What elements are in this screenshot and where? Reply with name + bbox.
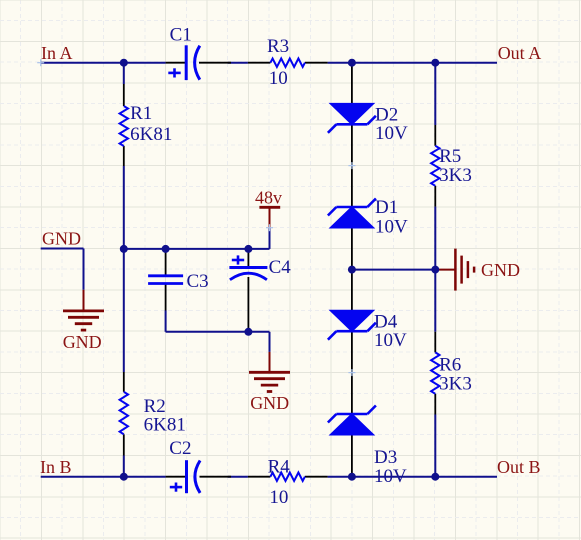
- wire rail to Out B: [435, 476, 497, 478]
- pin R5 top: [434, 125, 436, 146]
- wire R3 to node D2-top: [328, 62, 352, 64]
- svg-text:6K81: 6K81: [130, 124, 172, 145]
- pin R3 left: [248, 62, 271, 64]
- wire right rail mid node to R6: [434, 270, 436, 332]
- wire C1 to R3: [228, 62, 248, 64]
- pin-join marker D2/D1: [348, 162, 355, 169]
- wire-end marker In A: [37, 59, 44, 66]
- svg-text:6K81: 6K81: [144, 415, 186, 436]
- pin R2 top: [123, 372, 125, 392]
- capacitor C2 plus sign: [170, 486, 182, 489]
- resistor R3 body: [270, 59, 305, 67]
- junction mid GND: [431, 266, 439, 274]
- svg-text:10V: 10V: [375, 217, 408, 238]
- wire C4 bus to GND corner: [248, 331, 269, 333]
- ground symbol left stem: [83, 290, 85, 311]
- pin R4 right: [305, 476, 328, 478]
- wire C2 to R4: [228, 476, 248, 478]
- junction 48v row C4: [244, 245, 252, 253]
- pin R6 bottom: [434, 394, 436, 415]
- svg-text:10V: 10V: [374, 466, 407, 487]
- junction 48v row C3: [162, 245, 170, 253]
- resistor R2 body: [120, 392, 128, 435]
- capacitor C1 straight plate: [185, 45, 188, 80]
- zener diode D3: [330, 414, 373, 435]
- capacitor C4 plus sign: [232, 259, 244, 262]
- pin C1 right: [199, 62, 231, 64]
- ground symbol left bars: [63, 309, 104, 312]
- pin C3 bottom: [165, 284, 167, 311]
- wire node D2-top to node Out A rail: [352, 62, 435, 64]
- zener diode D2: [330, 104, 373, 125]
- ground symbol right bars: [454, 249, 457, 291]
- svg-text:R6: R6: [439, 355, 461, 376]
- svg-text:R3: R3: [267, 36, 289, 57]
- pin C1 left: [166, 62, 187, 64]
- pin-join marker D4/D3: [348, 369, 355, 376]
- resistor R6 body: [431, 352, 439, 393]
- junction bottom rail: [431, 473, 439, 481]
- junction top D2: [348, 59, 356, 67]
- pin C3 top: [165, 249, 167, 276]
- capacitor C2 straight plate: [185, 460, 188, 493]
- ground symbol mid bars: [249, 371, 290, 374]
- wire left rail R1 to 48v row: [123, 166, 125, 249]
- capacitor C4 straight plate: [229, 266, 267, 269]
- svg-text:D4: D4: [374, 311, 398, 332]
- wire mid row D1 to right rail: [352, 269, 435, 271]
- resistor R5 body: [431, 146, 439, 186]
- pin C4 top: [247, 249, 249, 268]
- svg-text:10V: 10V: [374, 330, 407, 351]
- pin R2 bottom: [123, 434, 125, 455]
- pin R1 bottom: [123, 146, 125, 166]
- capacitor C4 curved plate: [230, 273, 267, 280]
- pin D4 anode top: [351, 270, 353, 311]
- wire GND-mid vertical: [269, 332, 271, 352]
- capacitor C1 curved plate: [195, 46, 200, 80]
- wire rail to Out A: [435, 62, 497, 64]
- wire R4 to node D3-bottom: [328, 476, 352, 478]
- wire right rail top to R5: [434, 63, 436, 125]
- wire In A to node A: [41, 62, 124, 64]
- pin R1 top: [123, 84, 125, 106]
- wire node A to C1: [124, 62, 166, 64]
- svg-text:C4: C4: [269, 257, 292, 278]
- wire 48v row horizontal: [124, 248, 270, 250]
- ground symbol mid stem: [269, 352, 271, 372]
- wire C3 bottom bus: [166, 331, 249, 333]
- svg-text:3K3: 3K3: [439, 165, 472, 186]
- pin C2 right: [200, 476, 232, 478]
- resistor R4 body: [270, 473, 305, 481]
- junction 48v row left: [120, 245, 128, 253]
- wire right rail R6 to bottom: [434, 415, 436, 477]
- capacitor C3 top plate: [148, 274, 183, 277]
- svg-text:GND: GND: [481, 260, 520, 280]
- svg-text:C2: C2: [169, 438, 191, 459]
- pin D2 cathode / pin D1 cathode (shared run): [351, 124, 353, 207]
- zener diode D4: [330, 311, 373, 332]
- capacitor C2 curved plate: [195, 461, 200, 493]
- svg-text:R1: R1: [130, 103, 152, 124]
- power port 48v stem: [269, 207, 271, 227]
- power port 48v bar: [259, 206, 280, 209]
- svg-text:10V: 10V: [375, 123, 408, 144]
- zener diode D1: [330, 207, 373, 228]
- svg-text:C1: C1: [170, 24, 192, 45]
- pin C2 left: [166, 476, 187, 478]
- junction C4 bottom: [244, 328, 252, 336]
- ground symbol right wire: [435, 269, 455, 271]
- pin D2 anode top: [351, 66, 353, 104]
- wire left rail 48v row to R2: [123, 249, 125, 372]
- svg-text:10: 10: [269, 68, 288, 89]
- svg-text:3K3: 3K3: [439, 374, 472, 395]
- wire left rail upper (node A down to R1): [123, 63, 125, 84]
- wire node B to C2: [124, 476, 166, 478]
- wire right rail R5 to mid GND node: [434, 207, 436, 270]
- svg-text:In B: In B: [40, 457, 72, 477]
- junction mid D1-D4: [348, 266, 356, 274]
- node B junction: [120, 473, 128, 481]
- pin R6 top: [434, 332, 436, 353]
- svg-text:GND: GND: [250, 393, 289, 413]
- svg-text:Out B: Out B: [497, 457, 541, 477]
- wire In B to node B: [41, 476, 124, 478]
- capacitor C3 bottom plate: [148, 282, 183, 285]
- wire C3 lower lead vertical: [165, 311, 167, 332]
- wire left rail R2 to In B row: [123, 456, 125, 477]
- wire GND-left vertical: [83, 249, 85, 290]
- svg-text:GND: GND: [63, 332, 102, 352]
- svg-text:D2: D2: [375, 104, 398, 125]
- svg-text:48v: 48v: [255, 187, 282, 207]
- wire GND-left horizontal: [41, 248, 84, 250]
- pin D3 anode bottom: [351, 435, 353, 476]
- svg-text:In A: In A: [41, 43, 73, 63]
- pin-join marker 48v stem: [266, 224, 273, 231]
- pin C4 bottom: [247, 277, 249, 332]
- svg-text:GND: GND: [42, 228, 81, 248]
- wire 48v stem lower half: [269, 228, 271, 249]
- svg-text:R4: R4: [268, 457, 291, 478]
- resistor R1 body: [120, 106, 128, 146]
- svg-text:Out A: Out A: [498, 43, 542, 63]
- capacitor C1 plus sign: [168, 72, 180, 75]
- svg-text:D1: D1: [375, 197, 398, 218]
- wire node D3 to rail bottom: [352, 476, 435, 478]
- junction bottom D3: [348, 473, 356, 481]
- pin R5 bottom: [434, 186, 436, 207]
- pin D1 anode bottom: [351, 229, 353, 270]
- pin R4 left: [248, 476, 271, 478]
- svg-text:10: 10: [269, 487, 288, 508]
- node A junction: [120, 59, 128, 67]
- svg-text:R5: R5: [439, 146, 461, 167]
- pin D4 cathode / pin D3 cathode (shared run): [351, 331, 353, 414]
- junction top rail: [431, 59, 439, 67]
- svg-text:C3: C3: [187, 271, 209, 292]
- pin R3 right: [305, 62, 328, 64]
